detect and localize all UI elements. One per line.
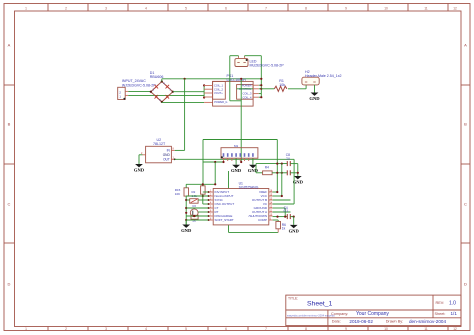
wire PS1 input tie [203, 85, 205, 97]
pin U1.14 VC [269, 203, 273, 205]
junction control/rail [240, 78, 242, 80]
wire supply row2 [256, 172, 263, 174]
resistor R6 1k [276, 222, 281, 229]
svg-text:4: 4 [145, 327, 147, 331]
svg-text:Drawn By:: Drawn By: [386, 320, 404, 324]
pin U1.15 VCC [269, 195, 273, 197]
pin U1.8 SOFT_START [208, 219, 213, 221]
junction left a [185, 199, 187, 201]
wire control inside [237, 88, 254, 90]
svg-text:COMP: COMP [258, 218, 267, 222]
svg-text:GND: GND [134, 167, 145, 172]
svg-text:GND: GND [163, 153, 171, 157]
junction PS1 out2 [260, 88, 262, 90]
pin M1.4 [235, 158, 237, 161]
wire VC [273, 203, 295, 205]
svg-text:10: 10 [384, 327, 388, 331]
wire J1.2 to bridge [128, 90, 151, 92]
svg-text:COIL_3: COIL_3 [243, 92, 252, 96]
svg-text:D: D [8, 282, 11, 287]
junction V+ rail [260, 78, 262, 80]
svg-text:Date:: Date: [332, 320, 341, 324]
ground left network [185, 220, 187, 225]
pin U1.4 OSC.OUTPUT [208, 203, 213, 205]
junction left b [185, 207, 187, 209]
svg-text:COIL_4: COIL_4 [243, 95, 252, 99]
svg-text:3: 3 [105, 6, 107, 10]
wire VREF [273, 191, 278, 193]
wire R15/R9 top link [186, 183, 215, 185]
wire VCC [273, 195, 282, 197]
junction row2 a [276, 172, 278, 174]
wire U2 OUT to VC net [175, 158, 294, 160]
wire left net vertical [185, 196, 187, 224]
svg-text:1k: 1k [282, 227, 286, 231]
ground C4 [290, 225, 298, 228]
svg-text:12: 12 [453, 6, 457, 10]
junction PS1 pin4 [203, 96, 205, 98]
junction shutdown b [284, 216, 286, 218]
svg-text:GND: GND [181, 228, 192, 233]
PWM controller U1 SG3525ANG [213, 189, 269, 225]
svg-text:1: 1 [25, 327, 27, 331]
svg-text:9: 9 [345, 6, 347, 10]
svg-text:SG3525ANG: SG3525ANG [239, 185, 259, 189]
junction shutdown a [276, 216, 278, 218]
svg-text:2: 2 [65, 327, 67, 331]
svg-text:OUT: OUT [163, 157, 170, 161]
voltage regulator U2 78L12T [146, 146, 172, 163]
svg-text:RBU606: RBU606 [150, 75, 164, 79]
wire row rt [198, 211, 208, 213]
junction left d [185, 219, 187, 221]
svg-text:den-smirnov-2004: den-smirnov-2004 [409, 319, 446, 324]
pin U1.9 COMP [269, 219, 273, 221]
connector LED MU2EDGVC-5.08-2P [235, 59, 248, 67]
wire bridge+ to top rail [161, 79, 163, 82]
svg-text:POWER_G: POWER_G [214, 100, 227, 104]
wire bridge right to PS1 [173, 91, 204, 93]
svg-text:C: C [464, 202, 467, 207]
wire VC riser [293, 159, 295, 204]
pin U2 IN [171, 149, 174, 151]
junction PS1 out1 [260, 84, 262, 86]
pin M1.1 [223, 158, 225, 161]
wire row noninv [186, 195, 208, 197]
svg-text:GND: GND [231, 168, 242, 173]
pin M1.8 [252, 158, 254, 161]
pin LED.2 [244, 57, 246, 59]
junction discharge [193, 215, 195, 217]
wire control drop to M1 [240, 79, 242, 162]
svg-text:3: 3 [105, 327, 107, 331]
pin M1.2 [227, 158, 229, 161]
resistor R4 [263, 171, 273, 175]
wire row inv [203, 191, 209, 193]
pin M1.7 [248, 158, 250, 161]
svg-text:POWER: POWER [242, 83, 252, 87]
svg-text:11: 11 [424, 327, 428, 331]
junction PS1 out4 [260, 96, 262, 98]
pin M1.6 [244, 158, 246, 161]
wire supply row1 [256, 163, 287, 165]
wire U2 GND [139, 154, 143, 156]
svg-text:WJ2EDGVC-5.08-2P: WJ2EDGVC-5.08-2P [122, 83, 156, 87]
svg-text:1: 1 [25, 6, 27, 10]
pin U1.6 RT [208, 211, 213, 213]
pin U1.13 OUTPUT B [269, 199, 273, 201]
pin U1.2 Noninv.INPUT [208, 195, 213, 197]
svg-text:1/1: 1/1 [451, 311, 458, 316]
pin U1.12 GROUND [269, 207, 273, 209]
resistor R9 [201, 186, 206, 194]
junction top link [202, 183, 204, 185]
pin U1.16 VREF [269, 191, 273, 193]
resistor R15 10K [184, 188, 189, 196]
ground M1 pin8 [252, 158, 254, 165]
wire GROUND pin [273, 207, 286, 209]
svg-text:C: C [8, 202, 11, 207]
junction R9 [202, 195, 204, 197]
svg-text:MU2EDGVC-5.08-2P: MU2EDGVC-5.08-2P [250, 64, 285, 68]
wire LED.1 to PS1 top [238, 55, 240, 58]
pin M1.5 [239, 158, 241, 161]
svg-text:A: A [464, 43, 467, 48]
svg-text:8: 8 [305, 6, 307, 10]
svg-text:SOFT_START: SOFT_START [215, 218, 234, 222]
ground H2 [311, 93, 319, 96]
wire LED.2 to V+ [244, 55, 246, 58]
capacitor C8 1u [286, 161, 288, 166]
wire R9 bottom [202, 194, 204, 204]
ground M1 pin4 [235, 158, 237, 165]
wire VCC riser [281, 164, 283, 196]
svg-text:GND: GND [309, 96, 320, 101]
junction row1 a [276, 163, 278, 165]
svg-text:A: A [8, 43, 11, 48]
svg-text:7: 7 [265, 6, 267, 10]
svg-text:10K: 10K [175, 192, 180, 196]
diode bridge D1 RBU606 [151, 82, 173, 102]
wire OUTPUT B [273, 199, 291, 201]
svg-text:Company:: Company: [331, 312, 348, 316]
svg-text:R4: R4 [265, 165, 269, 169]
wire H2.2 to ground [314, 85, 316, 93]
junction PS1 pin1 [203, 84, 205, 86]
wire row discharge [186, 215, 208, 217]
junction row1 b [281, 163, 283, 165]
wire J1.1 to PS1 input net [128, 94, 204, 96]
junction M1.1 [222, 161, 224, 163]
pin U2 GND [143, 154, 146, 156]
svg-text:12: 12 [453, 327, 457, 331]
wire C8 to ground [290, 163, 298, 165]
svg-text:REV:: REV: [436, 301, 445, 305]
svg-text:Header-Male 2.54_1x2: Header-Male 2.54_1x2 [305, 74, 342, 78]
pin LED.1 [238, 57, 240, 59]
junction M1.5 control [240, 161, 242, 163]
wire bridge- to PS1 POWER_G [161, 101, 163, 104]
svg-text:B: B [8, 122, 11, 127]
svg-text:B: B [464, 122, 467, 127]
svg-text:GND: GND [289, 228, 300, 233]
svg-text:5: 5 [185, 327, 187, 331]
header H2 Header-Male 2.54_1x2 [302, 77, 319, 85]
wire aux rail [203, 139, 277, 141]
transistor Q1 [190, 209, 198, 217]
wire C4 to ground [290, 216, 293, 218]
wire row sync [198, 199, 208, 201]
pin U1.7 DISCHARGE [208, 215, 213, 217]
pin U1.3 SYNC [208, 199, 213, 201]
svg-text:2019-06-02: 2019-06-02 [349, 319, 373, 324]
junction row2 c [297, 172, 299, 174]
wire row soft start [186, 219, 208, 221]
junction C4 gnd [293, 216, 295, 218]
junction VREF [276, 191, 278, 193]
junction top rail / U2 feed [184, 78, 186, 80]
svg-text:4: 4 [145, 6, 147, 10]
svg-text:M1: M1 [234, 144, 238, 148]
wire M1.1 to left network [203, 161, 224, 163]
wire row osc [203, 203, 209, 205]
svg-text:COIL_2: COIL_2 [214, 87, 223, 91]
pin U1.10 /SHUTDOWN [269, 215, 273, 217]
ground U2 [135, 164, 143, 167]
pin U2 OUT [171, 158, 174, 160]
svg-text:Sheet_1: Sheet_1 [307, 301, 333, 308]
pin U1.1 INV.INPUT [208, 191, 213, 193]
pin M1.3 [231, 158, 233, 161]
connector J1 INPUT-24VAC [118, 87, 126, 99]
junction left c [185, 212, 187, 214]
pin U1.5 CT [208, 207, 213, 209]
junction row2 b [281, 172, 283, 174]
svg-text:2: 2 [65, 6, 67, 10]
svg-text:10: 10 [384, 6, 388, 10]
transformer module PS1 LDO-1000H [213, 81, 254, 106]
svg-text:Your Company: Your Company [356, 311, 389, 317]
pin J1.2 [125, 90, 128, 92]
svg-text:10k: 10k [279, 83, 285, 87]
svg-text:1u: 1u [286, 156, 290, 160]
svg-text:TITLE:: TITLE: [288, 297, 298, 301]
svg-text:78L12T: 78L12T [153, 142, 166, 146]
svg-text:7: 7 [265, 327, 267, 331]
capacitor C9 [286, 170, 288, 175]
wire row ct [186, 207, 208, 209]
svg-text:8: 8 [305, 327, 307, 331]
wire M1.1 drop [214, 162, 216, 184]
svg-text:Sheet:: Sheet: [435, 312, 446, 316]
svg-text:VOUT+: VOUT+ [214, 91, 223, 95]
capacitor C4 0.1 [286, 214, 288, 219]
wire COMP to R6 [273, 219, 279, 221]
ground C8 [294, 176, 302, 179]
svg-text:6: 6 [225, 327, 227, 331]
svg-text:1.0: 1.0 [449, 301, 456, 307]
wire COMP feedback loop [228, 171, 230, 232]
wire aux drop right [276, 140, 278, 193]
trimmer R2 1.5k [190, 199, 198, 204]
svg-text:5: 5 [185, 6, 187, 10]
junction net at 215 [214, 161, 216, 163]
wire row2 end [290, 172, 298, 174]
wire OUTPUT A [273, 211, 291, 213]
svg-text:11: 11 [424, 6, 428, 10]
svg-text:6: 6 [225, 6, 227, 10]
resistor R1 10k [261, 88, 274, 90]
pin U1.11 OUTPUT A [269, 211, 273, 213]
wire shutdown row [273, 216, 288, 218]
junction top link right [214, 183, 216, 185]
svg-text:9: 9 [345, 327, 347, 331]
pin J1.1 [125, 94, 128, 96]
svg-text:COIL_1: COIL_1 [214, 84, 223, 88]
capacitor C6 [191, 215, 198, 219]
wire rail down to U2 IN [184, 79, 186, 151]
svg-text:easyeda.com/den-smirnov-2004: easyeda.com/den-smirnov-2004 easyeda [287, 314, 335, 318]
junction VCC [281, 195, 283, 197]
wire V+ net vertical [260, 56, 262, 97]
svg-text:D: D [464, 282, 467, 287]
svg-text:0.1: 0.1 [284, 209, 289, 213]
driver module M1 [221, 148, 258, 159]
